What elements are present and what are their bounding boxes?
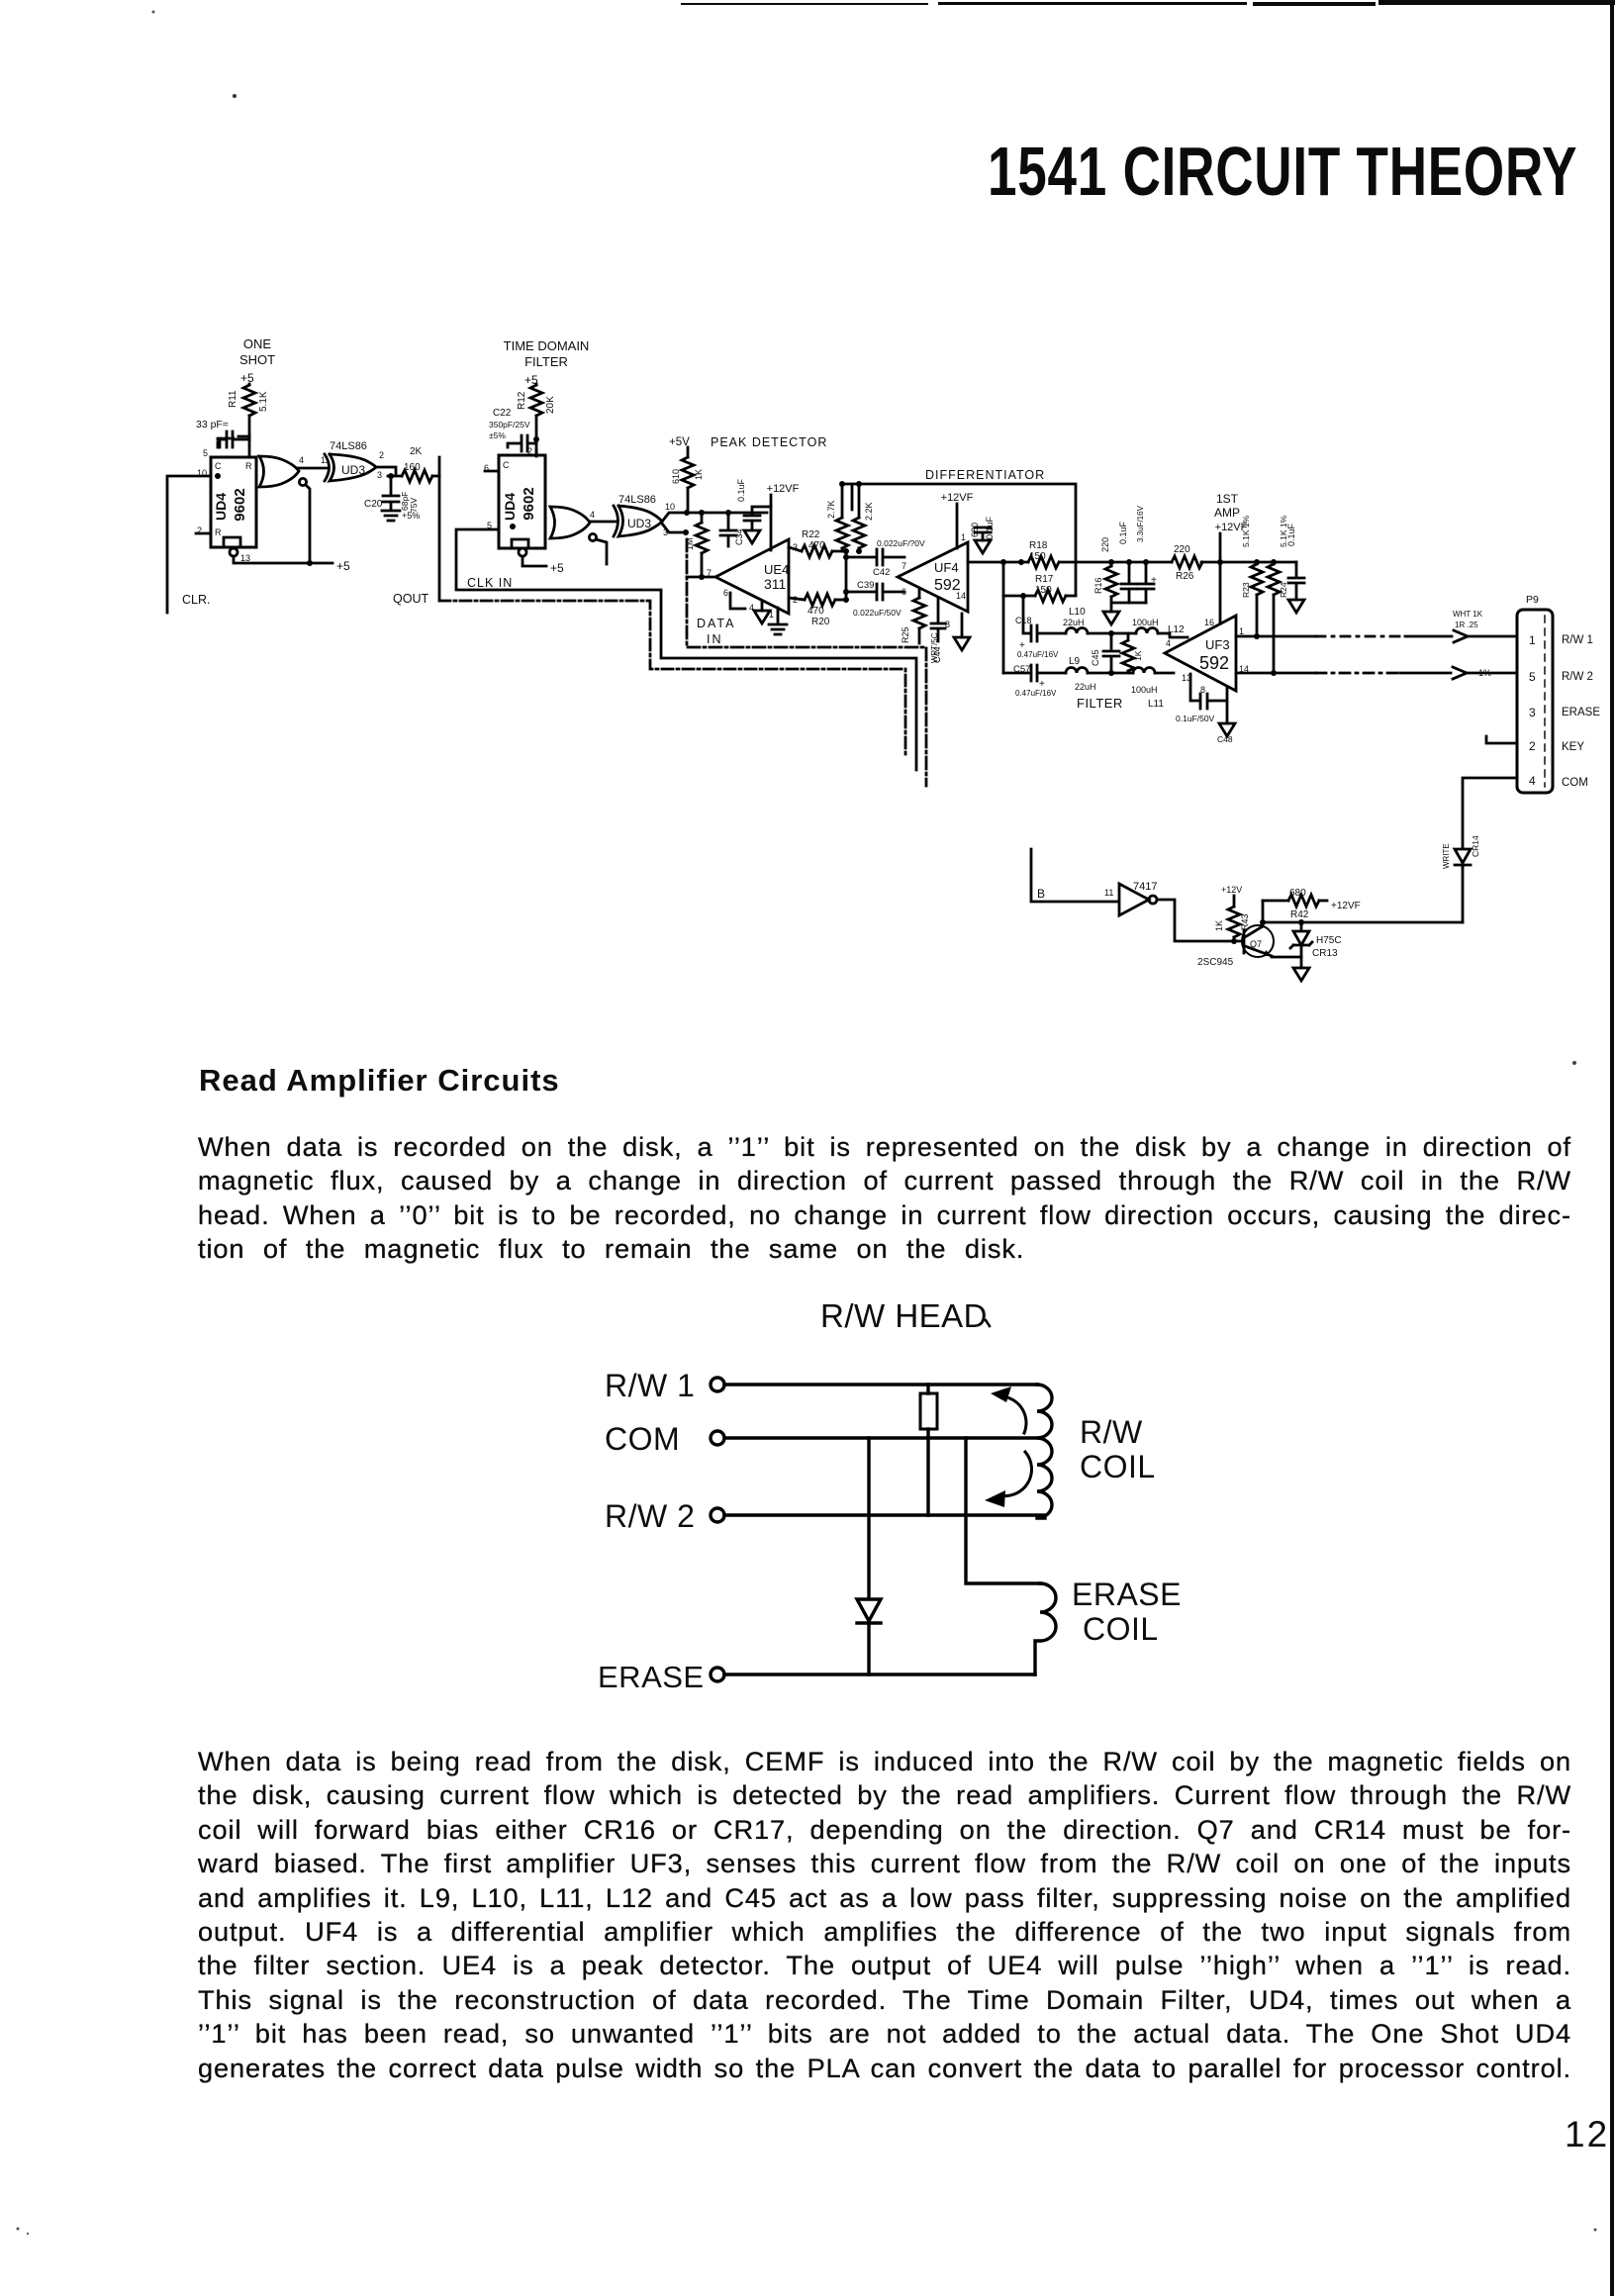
svg-text:IN: IN <box>707 632 723 646</box>
svg-text:C34: C34 <box>734 528 744 545</box>
terminal R/W 1 <box>605 1368 724 1403</box>
svg-text:PEAK DETECTOR: PEAK DETECTOR <box>711 435 827 449</box>
svg-text:R/W 1: R/W 1 <box>1562 634 1593 646</box>
wire COM <box>724 1436 1041 1439</box>
connector P9 signal names <box>1562 634 1600 789</box>
svg-text:+5%: +5% <box>402 511 420 521</box>
svg-text:5.1K: 5.1K <box>258 391 269 412</box>
svg-text:1: 1 <box>1529 633 1536 647</box>
page title <box>988 132 1577 211</box>
wire COM to write circuit <box>1463 778 1517 922</box>
svg-text:2SC945: 2SC945 <box>1197 957 1234 968</box>
resistor R23 5.1K 1% <box>1241 515 1263 636</box>
wire collector node <box>1260 901 1463 926</box>
svg-text:R/W 2: R/W 2 <box>1562 671 1593 683</box>
svg-text:COM: COM <box>605 1421 680 1457</box>
svg-text:C18: C18 <box>1015 616 1032 625</box>
svg-text:350pF/25V: 350pF/25V <box>489 420 530 430</box>
svg-text:COIL: COIL <box>1083 1611 1159 1647</box>
svg-text:6: 6 <box>902 587 906 597</box>
pin 5/6 bracket (UE4) <box>730 593 745 609</box>
svg-text:11: 11 <box>1104 888 1113 898</box>
svg-text:R: R <box>245 461 252 471</box>
svg-text:14: 14 <box>956 591 966 601</box>
arrowhead R/W2 <box>1453 667 1517 679</box>
svg-text:2K: 2K <box>410 446 423 457</box>
svg-text:0.1uF: 0.1uF <box>1286 523 1296 546</box>
svg-text:1%: 1% <box>1478 668 1491 678</box>
svg-text:WRITE: WRITE <box>1442 843 1451 869</box>
svg-text:1K: 1K <box>1214 920 1224 931</box>
resistor 2.2K <box>853 481 874 554</box>
svg-text:+5: +5 <box>550 561 564 575</box>
svg-text:R16: R16 <box>1093 577 1103 594</box>
svg-text:SHOT: SHOT <box>239 352 275 367</box>
svg-text:UD4: UD4 <box>213 493 229 521</box>
svg-text:CR13: CR13 <box>1312 948 1338 959</box>
label: ONE SHOT <box>239 336 275 367</box>
svg-text:3.3uF/16V: 3.3uF/16V <box>1136 505 1145 542</box>
svg-text:COM: COM <box>1562 777 1588 789</box>
svg-text:TIME DOMAIN: TIME DOMAIN <box>504 338 590 353</box>
svg-text:33 pF≈: 33 pF≈ <box>196 419 229 430</box>
svg-text:+12VF: +12VF <box>767 483 800 495</box>
svg-text:592: 592 <box>1199 653 1229 673</box>
op-amp UF4 592 (differentiator) <box>898 532 968 629</box>
wire main rail <box>968 559 1296 565</box>
svg-text:20K: 20K <box>545 396 556 414</box>
capacitor 3.3uF/16V <box>1136 505 1157 603</box>
svg-text:UD4: UD4 <box>502 493 518 521</box>
svg-text:R12: R12 <box>517 391 527 410</box>
wire CLK IN bus <box>456 529 916 770</box>
capacitor C42 0.022uF <box>843 538 925 578</box>
resistor R43 1K <box>1214 885 1250 944</box>
svg-text:0.022uF/50V: 0.022uF/50V <box>853 608 902 618</box>
svg-text:C22: C22 <box>493 408 512 419</box>
paragraph 2 <box>198 1745 1571 2085</box>
power +5 (one shot) <box>240 371 254 385</box>
resistor (head damping) <box>920 1385 937 1515</box>
resistor R16 <box>1093 537 1117 603</box>
svg-text:1: 1 <box>1239 626 1244 636</box>
resistor 1K (filter) <box>1122 633 1143 673</box>
svg-text:+12V: +12V <box>1221 885 1242 895</box>
svg-text:150: 150 <box>1035 585 1052 596</box>
IC UD4 9602 (time domain filter) <box>484 446 545 548</box>
svg-text:4: 4 <box>590 510 595 520</box>
svg-text:ERASE: ERASE <box>1562 707 1600 718</box>
clear bubble (TDF) <box>519 548 564 575</box>
wire 7417 to Q7 base <box>1157 900 1240 941</box>
svg-text:UF3: UF3 <box>1205 637 1230 652</box>
label DATA IN <box>697 617 735 646</box>
transistor Q7 2SC945 <box>1197 925 1274 968</box>
svg-text:CLR.: CLR. <box>182 593 210 607</box>
svg-text:UD3: UD3 <box>341 463 365 477</box>
ground arrow (rail caps) <box>1103 603 1146 624</box>
svg-text:7417: 7417 <box>1133 881 1157 893</box>
svg-text:KEY: KEY <box>1562 741 1584 753</box>
svg-text:+5: +5 <box>240 371 254 385</box>
svg-text:1: 1 <box>961 532 966 542</box>
svg-text:±5%: ±5% <box>489 430 506 440</box>
resistor 160 / 2K <box>402 446 439 482</box>
label R/W HEAD <box>820 1297 990 1334</box>
svg-text:R/W: R/W <box>1080 1414 1143 1450</box>
wire UE4 output (data) <box>687 576 715 579</box>
svg-text:DIFFERENTIATOR: DIFFERENTIATOR <box>925 468 1045 482</box>
svg-text:+12VF: +12VF <box>1331 901 1361 911</box>
svg-text:R23: R23 <box>1241 582 1251 598</box>
svg-text:Q7: Q7 <box>1250 939 1262 949</box>
ground arrow (UF4) <box>954 614 970 650</box>
power +12VF (UF4) <box>941 492 974 548</box>
svg-text:R42: R42 <box>1290 909 1309 920</box>
wire erase branch <box>966 1438 1040 1583</box>
capacitor 33pF <box>196 419 249 447</box>
svg-text:R18: R18 <box>1029 540 1048 551</box>
svg-text:R/W 2: R/W 2 <box>605 1498 695 1534</box>
XOR gate UD3 (74LS86, one shot) <box>321 440 384 481</box>
svg-text:DATA: DATA <box>697 617 735 630</box>
svg-text:470: 470 <box>807 606 824 617</box>
wire gate to UD3 <box>298 467 327 470</box>
svg-text:680: 680 <box>970 523 980 537</box>
svg-text:C39: C39 <box>857 580 874 591</box>
svg-text:7: 7 <box>902 561 906 571</box>
wire clear to +5 <box>234 556 350 573</box>
svg-text:74LS86: 74LS86 <box>618 494 656 506</box>
svg-text:610: 610 <box>671 469 681 484</box>
svg-text:0.47uF/16V: 0.47uF/16V <box>1015 689 1057 698</box>
wire UD3-2 out to peak detector <box>662 510 767 535</box>
terminal R/W 2 <box>605 1498 724 1534</box>
clear pin bubble and pin 13 <box>230 548 250 563</box>
resistor 610 (peak det pull-up) <box>671 447 704 513</box>
NOR gate (TDF) <box>550 507 607 564</box>
capacitor C45 <box>1091 630 1119 673</box>
svg-text:0.1uF: 0.1uF <box>736 478 746 502</box>
svg-text:74LS86: 74LS86 <box>330 440 367 452</box>
wire left drop <box>1002 562 1005 673</box>
resistor R22 470 <box>789 529 849 557</box>
svg-text:220: 220 <box>1174 544 1190 555</box>
svg-text:11: 11 <box>321 455 330 465</box>
svg-text:6: 6 <box>723 588 728 598</box>
IC U D4 9602 (one shot) <box>197 448 256 547</box>
svg-text:0.47uF/16V: 0.47uF/16V <box>1017 650 1059 659</box>
svg-text:R11: R11 <box>228 390 238 408</box>
svg-text:CLK IN: CLK IN <box>467 576 513 590</box>
svg-text:4: 4 <box>1166 638 1171 648</box>
svg-text:L10: L10 <box>1069 607 1086 618</box>
svg-text:L11: L11 <box>1148 699 1164 710</box>
svg-text:UE4: UE4 <box>764 562 789 577</box>
resistor R25 <box>901 590 925 643</box>
resistor R11 5.1K <box>228 384 269 457</box>
svg-text:R22: R22 <box>802 529 820 540</box>
svg-text:2: 2 <box>527 446 532 456</box>
label R/W COIL <box>1080 1414 1156 1484</box>
power +12VF (UE4) <box>767 483 800 550</box>
wire emitter to ground <box>1272 957 1309 981</box>
svg-text:R17: R17 <box>1035 574 1054 585</box>
inductor L11 100uH <box>1088 668 1174 711</box>
svg-text:UD3: UD3 <box>627 517 651 530</box>
svg-text:1ST: 1ST <box>1216 492 1239 506</box>
svg-text:WHT 1K: WHT 1K <box>1453 610 1483 619</box>
wire R/W 2 <box>724 1513 1045 1516</box>
capacitor 0.1uF/50V (UF3) <box>1176 674 1233 744</box>
capacitor 0.1uF (rail end) <box>1286 523 1304 613</box>
svg-text:0.1uF: 0.1uF <box>1118 521 1128 544</box>
svg-text:2: 2 <box>379 450 384 460</box>
svg-text:R: R <box>215 527 222 537</box>
top border rule <box>681 3 928 5</box>
svg-text:R26: R26 <box>1176 571 1194 582</box>
svg-text:C: C <box>215 461 222 471</box>
svg-text:0.022uF/?0V: 0.022uF/?0V <box>877 538 925 548</box>
page number <box>1565 2114 1609 2155</box>
svg-text:C45: C45 <box>1091 649 1100 666</box>
resistor 2.7K <box>826 481 848 551</box>
svg-text:+12VF: +12VF <box>941 492 974 504</box>
wire gate2 to UD3 <box>590 521 616 524</box>
svg-text:R24: R24 <box>1279 582 1288 598</box>
svg-text:+5: +5 <box>336 559 350 573</box>
diode CR13 H75C <box>1290 922 1342 959</box>
svg-text:1K: 1K <box>694 469 704 480</box>
svg-text:220: 220 <box>1100 537 1110 552</box>
svg-text:5.1K 1%: 5.1K 1% <box>1241 515 1251 547</box>
node B <box>1031 849 1117 902</box>
svg-text:4: 4 <box>1529 774 1536 788</box>
svg-text:5: 5 <box>203 448 208 458</box>
resistor R26 220 <box>1172 544 1202 582</box>
resistor R18 150 <box>1028 540 1059 568</box>
resistor R20 470 <box>789 594 849 627</box>
wire UD3 out <box>376 467 402 476</box>
svg-text:L9: L9 <box>1069 656 1081 667</box>
ground arrow (UF3 cap) <box>1219 723 1235 736</box>
svg-text:311: 311 <box>764 576 787 592</box>
svg-text:16: 16 <box>1204 618 1214 627</box>
capacitor C57 + inductor L9 22uH <box>1003 656 1096 698</box>
svg-text:C: C <box>503 460 510 470</box>
label: TIME DOMAIN FILTER <box>504 338 590 369</box>
coil ERASE COIL <box>1035 1583 1056 1674</box>
capacitor C39 0.022uF <box>843 580 904 618</box>
svg-text:9602: 9602 <box>521 487 537 520</box>
svg-text:100uH: 100uH <box>1132 618 1159 627</box>
svg-text:CR14: CR14 <box>1471 835 1480 857</box>
svg-text:9602: 9602 <box>232 488 248 521</box>
capacitor 0.1uF bypass (UF4) <box>970 516 995 553</box>
svg-text:AMP: AMP <box>1214 506 1240 520</box>
capacitor C34 <box>720 510 744 546</box>
resistor R24 5.1K 1% <box>1268 515 1288 673</box>
svg-text:100uH: 100uH <box>1131 685 1158 695</box>
svg-text:680: 680 <box>1289 888 1306 899</box>
connector P9 <box>1517 594 1553 793</box>
arrow (top flux) <box>991 1387 1026 1433</box>
svg-text:1R .25: 1R .25 <box>1455 621 1478 629</box>
wire DATA bus <box>687 539 926 786</box>
capacitor 0.1uF bypass (UE4) <box>736 478 771 543</box>
svg-text:470: 470 <box>808 540 825 551</box>
NOR gate (one shot) <box>259 455 310 563</box>
paragraph 1 <box>198 1130 1571 1267</box>
label FILTER <box>1077 696 1123 711</box>
section heading <box>199 1063 560 1099</box>
diode CR14 <box>1442 835 1480 869</box>
svg-text:4: 4 <box>299 455 304 465</box>
wire QOUT bus <box>439 601 905 754</box>
ground bars (UE4 pin1) <box>769 608 787 634</box>
diode (erase) <box>857 1438 881 1674</box>
terminal ERASE <box>598 1660 724 1694</box>
op-amp UE4 311 (peak detector) <box>707 539 798 620</box>
svg-text:10: 10 <box>665 502 675 512</box>
label ERASE COIL <box>1072 1577 1182 1647</box>
wire ERASE <box>724 1673 1035 1675</box>
svg-text:+: + <box>1151 575 1157 586</box>
rotated label write prot <box>930 632 939 663</box>
svg-text:WRT/5C: WRT/5C <box>930 632 939 663</box>
capacitor C20 <box>364 473 420 521</box>
svg-text:C20: C20 <box>364 499 383 510</box>
resistor R42 680 <box>1263 888 1361 920</box>
wire R/W 1 <box>724 1383 1037 1386</box>
wire R/W 2 (UF3 out to P9) <box>1236 670 1451 676</box>
svg-text:R25: R25 <box>901 626 910 643</box>
node CLR <box>167 476 211 613</box>
capacitor C44 <box>931 598 945 663</box>
arrowhead R/W1 <box>1453 610 1517 642</box>
svg-text:0.1uF/50V: 0.1uF/50V <box>1176 714 1215 723</box>
svg-text:C48: C48 <box>1217 734 1233 744</box>
terminal COM <box>605 1421 724 1457</box>
svg-text:2: 2 <box>1529 739 1536 753</box>
wire R/W 1 (UF3 out to P9) <box>1236 633 1452 639</box>
svg-text:ONE: ONE <box>243 336 272 351</box>
svg-text:H75C: H75C <box>1316 935 1342 946</box>
svg-text:UF4: UF4 <box>934 560 959 575</box>
svg-text:C57: C57 <box>1013 664 1030 675</box>
pin 2 stub <box>196 532 211 535</box>
svg-text:2.7K: 2.7K <box>826 500 836 519</box>
svg-text:22uH: 22uH <box>1063 618 1085 627</box>
inductor L12 100uH <box>1132 618 1187 637</box>
svg-text:FILTER: FILTER <box>524 354 568 369</box>
svg-text:3: 3 <box>377 470 382 480</box>
resistor R12 20K <box>517 384 556 456</box>
svg-text:P9: P9 <box>1526 594 1539 606</box>
svg-text:COIL: COIL <box>1080 1449 1156 1484</box>
svg-text:L12: L12 <box>1168 624 1185 635</box>
capacitor 0.1uF (rail) <box>1118 521 1137 603</box>
svg-text:2.2K: 2.2K <box>864 502 874 521</box>
svg-text:150: 150 <box>1029 551 1046 562</box>
svg-text:R/W HEAD: R/W HEAD <box>820 1297 988 1334</box>
svg-text:13: 13 <box>240 553 250 563</box>
power +5 (TDF) <box>524 373 538 387</box>
svg-text:ERASE: ERASE <box>1072 1577 1182 1612</box>
svg-text:1M: 1M <box>685 537 695 550</box>
right border rule <box>1610 4 1614 2296</box>
svg-text:B: B <box>1037 887 1045 901</box>
svg-text:R/W 1: R/W 1 <box>605 1368 695 1403</box>
capacitor C22 350pF <box>489 408 536 451</box>
svg-text:5: 5 <box>487 521 492 530</box>
svg-text:3: 3 <box>1529 706 1536 719</box>
resistor 1M (to data line) <box>685 510 708 580</box>
svg-text:5: 5 <box>1529 670 1536 684</box>
XOR gate UD3 (74LS86, TDF) <box>614 494 675 537</box>
svg-text:R20: R20 <box>811 617 830 627</box>
svg-text:FILTER: FILTER <box>1077 696 1123 711</box>
label 1ST AMP +12VF <box>1214 492 1248 623</box>
wire node link <box>845 551 848 600</box>
op-amp UF3 592 (1st amp) <box>1165 616 1249 695</box>
capacitor C18 + inductor L10 22uH <box>1015 593 1136 659</box>
buffer 7417 <box>1119 881 1157 915</box>
coil R/W COIL <box>1037 1385 1052 1518</box>
label: PEAK DETECTOR <box>669 435 827 449</box>
svg-text:ERASE: ERASE <box>598 1660 705 1694</box>
arrow (bottom flux) <box>985 1452 1031 1507</box>
svg-text:C42: C42 <box>873 567 890 578</box>
label + box DIFFERENTIATOR <box>842 468 1076 595</box>
wire KEY stub <box>1486 736 1517 743</box>
svg-text:QOUT: QOUT <box>393 592 428 606</box>
resistor R17 150 <box>1003 574 1076 602</box>
node QOUT <box>393 457 439 606</box>
ground arrow (UE4 pin4) <box>754 602 770 623</box>
svg-text:22uH: 22uH <box>1075 682 1096 692</box>
svg-text:160: 160 <box>404 462 421 473</box>
svg-text:1K: 1K <box>1133 650 1143 661</box>
